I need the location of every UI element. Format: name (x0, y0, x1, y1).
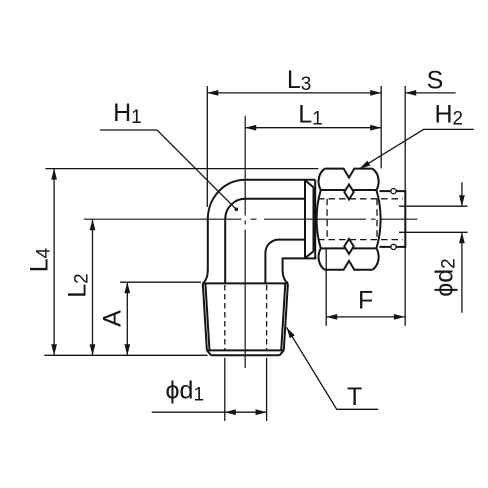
thread taper root right line (281, 283, 285, 350)
nut upper hex edge line (321, 189, 377, 191)
dimension A line with arrows (126, 282, 128, 355)
hidden bore shoulder left (dashed vertical) (326, 199, 328, 240)
nut top-left corner chamfer arc (319, 169, 325, 190)
hidden bore bottom line (dashed) (318, 239, 403, 241)
thread bottom chamfer right (280, 350, 284, 355)
thread boss outline between chamfers (313, 187, 315, 251)
svg-text:L4: L4 (26, 247, 55, 272)
thread bottom end face (211, 354, 279, 356)
thread boss chamfer bottom diagonal (305, 251, 313, 258)
dimension L4 line with arrows (53, 169, 55, 356)
pipe-to-thread flare left (203, 271, 208, 284)
dimension phi-d1 extension line right (266, 358, 268, 421)
dimension S / F shared extension line (lower) (404, 247, 406, 326)
nut bottom-left corner chamfer arc (319, 248, 325, 269)
dimension phi-d2 extension line bottom (399, 231, 468, 233)
svg-text:H2: H2 (434, 101, 463, 130)
svg-text:T: T (347, 383, 362, 411)
dimension F extension line left (325, 248, 327, 325)
leader T (underline and diagonal with arrow at thread) (287, 327, 379, 409)
dimension phi-d2 extension line top (399, 205, 468, 207)
elbow body outer contour (left edge, outer radius arc, top edge) (208, 180, 315, 271)
thread T top edge (203, 282, 288, 284)
svg-text:L1: L1 (298, 100, 322, 129)
thread bottom chamfer left (207, 350, 211, 355)
thread hidden root line right (dashed) (266, 285, 268, 350)
svg-text:F: F (358, 286, 373, 314)
elbow inner contour upper (neck vertical, inner arc, neck top edge) (225, 199, 305, 284)
thread taper outer left line (203, 283, 207, 350)
leader H2 (underline and diagonal with arrow at nut) (360, 129, 475, 168)
svg-text:ϕd2: ϕd2 (431, 258, 460, 296)
nut top-right corner chamfer arc (372, 169, 378, 190)
elbow body end face at nut side (314, 180, 316, 259)
dimension L3 extension line right (380, 86, 382, 168)
dimension L3 extension line left (206, 86, 208, 207)
dimension S extension line (upper) (404, 86, 406, 191)
thread boss chamfer top diagonal (305, 180, 313, 187)
nut lower hex corner diamond (344, 239, 353, 254)
svg-text:L2: L2 (64, 273, 93, 297)
hidden bore shoulder right (dashed vertical) (376, 199, 378, 240)
nut upper hex corner diamond (344, 185, 353, 200)
nut middle band left arc (317, 190, 321, 248)
dimension A top extension line (120, 281, 201, 283)
dimension L1 line with arrows (245, 127, 381, 129)
dimension L4 top extension line (to nut top) (45, 168, 318, 170)
dimension L2 line with arrows (92, 219, 94, 355)
svg-text:H1: H1 (113, 99, 142, 128)
svg-text:ϕd1: ϕd1 (166, 376, 204, 405)
nut middle band right arc (376, 190, 380, 248)
thread taper outer right line (284, 283, 288, 350)
dimension phi-d2 line upper segment with arrow (461, 182, 463, 206)
svg-text:A: A (99, 310, 127, 327)
hidden bore top line (dashed) (318, 198, 403, 200)
dimension S line with arrow (405, 92, 455, 94)
leader H1 (underline and diagonal with end dot) (100, 130, 236, 209)
dimension phi-d1 line with arrows (152, 411, 267, 413)
tube stub small circle top (391, 189, 396, 194)
elbow body outer contour bottom (right edge of vertical leg, bottom edge of horizontal leg) (283, 258, 317, 271)
dimension phi-d1 extension line left (224, 358, 226, 421)
dimension phi-d2 line lower segment with arrow (461, 232, 463, 312)
thread bottom root edge (207, 349, 284, 351)
tube stub outline (380, 191, 406, 247)
horizontal centerline of outlet axis (84, 218, 418, 220)
thread taper root left line (205, 283, 209, 350)
tube stub small circle bottom (391, 244, 396, 249)
dimension L3 line with arrows (207, 92, 381, 94)
svg-text:L3: L3 (287, 66, 311, 95)
nut top flat with V-notch (325, 169, 372, 178)
elbow body step ring edge before nut (304, 180, 306, 259)
elbow inner contour lower (neck right vertical, fillet, neck bottom edge) (265, 240, 305, 284)
thread hidden root line left (dashed) (224, 285, 226, 350)
nut bottom flat with V-notch (325, 261, 372, 270)
pipe-to-thread flare right (283, 271, 288, 284)
vertical centerline of threaded leg (244, 116, 246, 368)
nut lower hex edge line (321, 247, 377, 249)
nut bottom-right corner chamfer arc (372, 248, 378, 269)
svg-text:S: S (427, 66, 444, 94)
dimension F line with arrows (326, 316, 405, 318)
bottom baseline extension line (44, 354, 207, 356)
